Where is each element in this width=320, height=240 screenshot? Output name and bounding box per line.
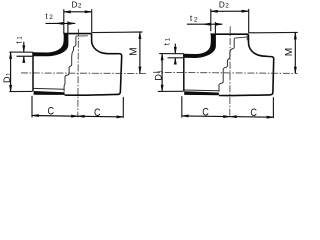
- svg-text:C: C: [94, 107, 101, 119]
- svg-text:1: 1: [17, 36, 24, 40]
- D2 dimension line with arrows (right tee): [211, 10, 248, 12]
- svg-text:D: D: [72, 1, 78, 10]
- run centerline (right tee): [153, 72, 298, 73]
- svg-text:M: M: [284, 48, 295, 57]
- label M (left tee): [129, 47, 140, 56]
- M dimension line with arrows (right tee): [294, 33, 296, 74]
- D2 extension line left (right tee): [210, 9, 212, 31]
- label t1 (right tee): [162, 37, 171, 45]
- C right extension line (right tee): [272, 97, 274, 118]
- label M (right tee): [284, 48, 295, 57]
- t1 leader with arrows (left tee): [23, 42, 25, 63]
- t2 inner wall extension line (left tee): [67, 21, 69, 33]
- svg-text:1: 1: [157, 70, 164, 74]
- branch left wall section fill (right tee): [184, 34, 216, 58]
- svg-text:1: 1: [165, 37, 172, 41]
- D1 bottom extension line (left tee): [9, 90, 32, 92]
- D2 dimension line with arrows (left tee): [64, 11, 92, 13]
- C left extension line (right tee): [181, 96, 183, 117]
- left end face of run (left tee): [32, 52, 34, 91]
- branch right outer wall and flank outline (right tee): [219, 35, 274, 96]
- svg-text:C: C: [202, 106, 209, 118]
- C right extension line (left tee): [122, 97, 124, 118]
- run bottom inner bore line (left tee): [33, 87, 64, 90]
- label D1 (right tee): [154, 70, 164, 81]
- t1 inner extension line (right tee): [168, 57, 184, 59]
- label D1 (left tee): [2, 72, 12, 83]
- D2 extension line right (left tee): [91, 9, 93, 33]
- svg-text:2: 2: [194, 16, 198, 23]
- svg-text:2: 2: [78, 3, 82, 10]
- D2 extension line left (left tee): [63, 9, 65, 33]
- t1 outer extension line (right tee): [159, 53, 184, 55]
- t2 inner wall extension line (right tee): [214, 22, 216, 34]
- D1 dimension line with arrows (right tee): [161, 54, 163, 92]
- section break line (right tee): [219, 38, 234, 91]
- left end face of run (right tee): [183, 54, 185, 92]
- label D2 (right tee): [219, 1, 230, 10]
- svg-text:C: C: [48, 105, 55, 117]
- t2 leader line with arrows (left tee): [46, 22, 76, 24]
- branch top end face (left tee): [63, 33, 92, 35]
- D1 bottom extension line (right tee): [158, 90, 184, 92]
- t1 leader with arrows (right tee): [174, 44, 176, 65]
- D1 dimension line with arrows (left tee): [10, 52, 12, 92]
- section break line (left tee): [64, 36, 76, 91]
- label D2 (left tee): [72, 1, 82, 10]
- M extension line from branch end (right tee): [249, 31, 298, 33]
- branch end bevel line (left tee): [76, 35, 88, 37]
- svg-text:M: M: [129, 47, 140, 56]
- branch centerline (right tee): [229, 26, 231, 117]
- run bottom wall section fill (left tee): [34, 91, 65, 95]
- label t2 (left tee): [45, 12, 53, 21]
- run bottom inner bore line (right tee): [184, 89, 219, 92]
- branch right outer wall and flank outline (left tee): [65, 34, 122, 96]
- branch end bevel line with edges (right tee): [234, 35, 247, 40]
- t1 outer extension line (left tee): [9, 51, 33, 53]
- C dimension line with arrows (left tee): [32, 114, 123, 118]
- svg-text:2: 2: [49, 14, 53, 21]
- run bottom wall section fill (right tee): [184, 91, 219, 95]
- C dimension line with arrows (right tee): [182, 115, 274, 118]
- branch centerline (left tee): [77, 29, 80, 117]
- branch top end face (right tee): [210, 33, 249, 35]
- D2 extension line right (right tee): [248, 9, 250, 33]
- C left extension line (left tee): [31, 96, 33, 118]
- run centerline (left tee): [21, 72, 146, 75]
- label t2 (right tee): [190, 13, 198, 23]
- M extension line from branch end (left tee): [92, 31, 142, 34]
- label t1 (left tee): [14, 36, 23, 44]
- M dimension line with arrows (left tee): [139, 32, 141, 73]
- branch left wall section fill (left tee): [33, 34, 68, 57]
- t1 inner extension line (left tee): [17, 55, 34, 57]
- svg-text:1: 1: [6, 72, 13, 76]
- svg-text:C: C: [250, 107, 257, 119]
- svg-text:D: D: [219, 1, 225, 10]
- svg-text:2: 2: [225, 3, 229, 10]
- t2 leader line with arrows (right tee): [187, 23, 222, 25]
